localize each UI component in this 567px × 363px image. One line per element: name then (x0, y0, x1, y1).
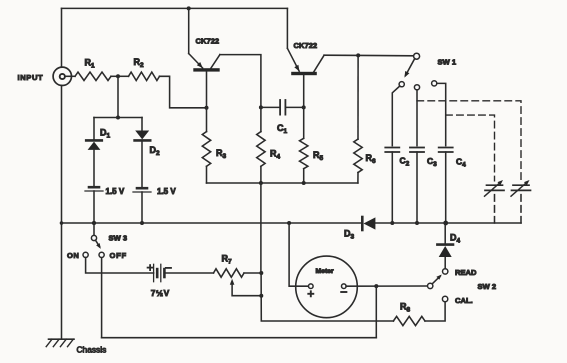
svg-text:READ: READ (455, 268, 477, 277)
battery B1 long plate (85, 190, 103, 192)
transistor Q1 base bar (193, 68, 219, 71)
wire dashed link C3 to outer trimmer (417, 101, 521, 181)
label R8 (400, 302, 411, 314)
node C3 bus junction (415, 221, 419, 225)
wire R4 node to C1 (261, 106, 280, 108)
switch SW3 pole contact (91, 235, 96, 240)
svg-text:Meter: Meter (316, 268, 334, 275)
wire OFF contact drop (101, 258, 103, 338)
label C2 (400, 156, 410, 168)
wire tee to D2 (141, 118, 143, 131)
wire R7 to vertical (244, 272, 261, 274)
battery B3 minus sign (166, 267, 171, 269)
wire meter minus to SW2 pole (346, 285, 427, 287)
wire node A to R2 (118, 75, 129, 77)
transistor Q2 base lead (303, 75, 305, 107)
label R1 (85, 58, 96, 70)
wire R3 bottom (206, 166, 208, 183)
label INPUT (18, 73, 44, 82)
switch SW3 ON contact (83, 252, 88, 257)
wire throw A elbow to C2 (392, 86, 400, 146)
label READ (455, 268, 477, 277)
transistor Q1 base lead (206, 72, 208, 108)
node Q1 base junction (205, 106, 209, 110)
wire dashed inner trimmer to bus (494, 195, 496, 223)
wire R7 net down elbow (261, 273, 393, 321)
label Q1 CK722 (196, 36, 220, 45)
wire R5 bottom (303, 169, 305, 183)
transistor Q2 emitter diagonal (287, 48, 299, 71)
ground chassis symbol (46, 339, 74, 346)
svg-text:1.5 V: 1.5 V (157, 187, 176, 196)
wire tee to D1 (93, 118, 95, 140)
node R5 bottom rail junction (302, 181, 306, 185)
wire R8 elbow to CAL (425, 302, 445, 321)
diode D3 cathode bar (361, 217, 364, 230)
label SW3 (109, 233, 128, 242)
switch SW3 OFF contact (99, 252, 104, 257)
potentiometer R7 wiper arrow (230, 279, 235, 285)
wire battery B1 to bus (93, 191, 95, 223)
wire C1 to R5 node (285, 106, 303, 108)
label ON (67, 251, 79, 260)
node SW3 pole bus junction (92, 221, 96, 225)
switch SW2 lever arrow (436, 275, 441, 280)
label R5 (313, 150, 324, 162)
transistor Q1 emitter arrow (197, 62, 203, 68)
trimmer capacitor CV2 arrow (511, 180, 530, 196)
capacitor C1 right plate (284, 100, 286, 115)
diode D3 triangle (364, 217, 376, 229)
wire R1 to node A (111, 75, 118, 77)
input jack J1 center pin (60, 74, 65, 79)
svg-text:R5: R5 (313, 150, 324, 162)
battery B3 plate long 2 (160, 264, 162, 281)
label 1.5V right (157, 187, 176, 196)
svg-text:D4: D4 (450, 233, 461, 245)
switch SW2 pole contact (428, 283, 433, 288)
wire R6 bottom elbow (357, 173, 359, 184)
node R7 right junction (259, 271, 263, 275)
wire R2 right elbow down (160, 76, 207, 108)
capacitor C3 bottom plate (410, 151, 424, 153)
trimmer capacitor CV1 top plate (487, 184, 503, 186)
label D3 (344, 229, 355, 241)
svg-text:C3: C3 (427, 156, 437, 168)
switch SW1 lever arrow (404, 71, 409, 78)
wire C3 to bus (416, 152, 418, 223)
meter plus sign (308, 291, 313, 296)
label D1 (100, 128, 111, 140)
resistor R8 (393, 316, 425, 325)
resistor R3 (202, 132, 210, 167)
wire battery B2 to bus (141, 192, 143, 223)
label CAL. (455, 296, 473, 305)
wire R3 top (206, 108, 208, 132)
switch SW1 lever (406, 59, 415, 76)
svg-text:R1: R1 (85, 58, 96, 70)
svg-text:CK722: CK722 (294, 41, 318, 50)
label SW1 (438, 57, 457, 66)
wire D1 to battery B1 (93, 150, 95, 186)
svg-text:R8: R8 (400, 302, 411, 314)
capacitor C4 top plate (439, 147, 453, 149)
svg-text:D3: D3 (344, 229, 355, 241)
svg-text:R4: R4 (270, 149, 281, 161)
label R7 (222, 253, 233, 265)
wire dashed outer trimmer to bus (520, 195, 522, 223)
wire dashed link C4 to inner trimmer (446, 115, 495, 181)
battery B2 short plate (137, 187, 147, 190)
svg-text:CAL.: CAL. (455, 296, 473, 305)
wire Q1 emitter drop (188, 8, 190, 53)
resistor R7 (214, 269, 245, 277)
wire R5 top (303, 107, 305, 138)
svg-text:7½V: 7½V (151, 288, 170, 298)
node R6 top junction (356, 53, 360, 57)
wire bus left of D3 (62, 222, 363, 224)
wire bus to SW3 pole (93, 223, 95, 235)
label 1.5 V left (106, 187, 125, 196)
svg-text:R3: R3 (216, 148, 227, 160)
switch SW2 READ contact (443, 269, 448, 274)
wire R4 top (260, 107, 262, 131)
node meter feed bus junction (287, 221, 291, 225)
node bus left-rail junction (60, 221, 64, 225)
wire left rail upper segment (61, 8, 63, 67)
switch SW2 CAL contact (442, 296, 447, 301)
svg-text:R2: R2 (134, 57, 145, 69)
node Q1 emitter top-rail junction (187, 6, 191, 10)
wire battery B3 to R7 (164, 272, 213, 274)
meter M1 body (296, 256, 358, 318)
wire bottom long run (102, 337, 377, 339)
label R3 (216, 148, 227, 160)
wire resistor bottom rail (207, 182, 358, 184)
svg-text:SW 1: SW 1 (438, 57, 457, 66)
wire diode tee crossbar (94, 117, 142, 119)
node battery B2 bus junction (140, 221, 144, 225)
diode D1 triangle (88, 142, 101, 150)
diode D4 triangle (439, 246, 452, 257)
trimmer capacitor CV2 top plate (513, 184, 529, 186)
potentiometer R7 wiper lead (232, 285, 261, 296)
wire top supply rail (62, 7, 288, 9)
meter plus terminal (309, 284, 314, 289)
resistor R6 (354, 139, 362, 172)
label D2 (150, 145, 161, 157)
label Chassis (77, 345, 107, 355)
label 7.5V (151, 288, 170, 298)
label Meter (316, 268, 334, 275)
node C2 bus junction (390, 221, 394, 225)
wire bus down to meter plus (289, 223, 308, 286)
node R5 top junction (302, 105, 306, 109)
svg-text:CK722: CK722 (196, 36, 220, 45)
svg-text:SW 2: SW 2 (478, 282, 497, 291)
label C4 (456, 157, 466, 169)
switch SW1 pole contact (414, 53, 420, 59)
input jack J1 outer ring (53, 67, 71, 85)
wire tap down to bottom run (375, 286, 377, 338)
switch SW1 throw C contact (432, 81, 437, 86)
transistor Q2 base bar (291, 72, 317, 75)
switch SW3 lever arrow (96, 243, 101, 249)
trimmer capacitor CV1 bottom plate (485, 189, 504, 191)
capacitor C3 top plate (410, 147, 424, 149)
node battery B1 bus junction (92, 221, 96, 225)
switch SW1 throw A contact (399, 82, 404, 87)
wire rail down through bus to R7 net (260, 183, 262, 273)
label R6 (366, 153, 377, 165)
battery B1 short plate (89, 186, 99, 189)
svg-text:OFF: OFF (110, 251, 127, 260)
battery B3 plate long 1 (153, 264, 155, 281)
svg-text:SW 3: SW 3 (109, 233, 128, 242)
node R7 wiper junction (259, 294, 263, 298)
meter minus sign (341, 291, 346, 293)
node R4 top junction (259, 105, 263, 109)
wire C4 to bus (445, 152, 447, 223)
switch SW2 lever (432, 276, 440, 284)
meter minus terminal (342, 284, 347, 289)
label D4 (450, 233, 461, 245)
battery B3 plus sign (148, 265, 153, 270)
capacitor C4 bottom plate (439, 151, 453, 153)
wire D4 to bus (444, 223, 446, 245)
wire node A down to diode tee (117, 76, 119, 117)
transistor Q1 collector diagonal (211, 55, 220, 69)
transistor Q1 emitter diagonal (189, 54, 203, 69)
capacitor C1 left plate (279, 100, 281, 115)
svg-text:R6: R6 (366, 153, 377, 165)
wire Q2 emitter drop from rail end (286, 8, 288, 48)
svg-text:Chassis: Chassis (77, 345, 107, 355)
wire R4 bottom (260, 166, 262, 183)
wire throw C elbow to C4 (437, 83, 446, 145)
wire READ contact to D4 (444, 257, 446, 269)
label R2 (134, 57, 145, 69)
svg-text:C2: C2 (400, 156, 410, 168)
diode D4 cathode bar (437, 243, 453, 246)
svg-text:R7: R7 (222, 253, 233, 265)
label SW2 (478, 282, 497, 291)
svg-text:INPUT: INPUT (18, 73, 44, 82)
battery B3 plate short 1 (156, 269, 159, 277)
label C1 (277, 123, 288, 135)
diode D2 triangle (135, 131, 149, 140)
wire Q1 collector to R4 node (220, 55, 261, 108)
label Q2 CK722 (294, 41, 318, 50)
wire ON contact elbow to battery (86, 258, 154, 274)
resistor R2 (129, 72, 160, 80)
resistor R4 (257, 132, 265, 167)
label R4 (270, 149, 281, 161)
wire left rail lower segment (61, 86, 63, 340)
node R4 bottom rail junction (259, 181, 263, 185)
svg-text:D1: D1 (100, 128, 111, 140)
svg-text:1.5 V: 1.5 V (106, 187, 125, 196)
capacitor C2 bottom plate (385, 151, 399, 153)
wire throw B to C3 (416, 90, 418, 146)
label C3 (427, 156, 437, 168)
transistor Q2 emitter arrow (294, 65, 299, 72)
resistor R1 (75, 72, 111, 80)
node diode tee junction (116, 116, 120, 120)
node A junction R1/R2/diodes (116, 74, 120, 78)
switch SW3 lever (96, 240, 100, 247)
node meter minus tap junction (374, 284, 378, 288)
diode D1 cathode bar (86, 139, 102, 142)
wire R6 top (357, 55, 359, 139)
wire C2 to bus (391, 152, 393, 223)
svg-text:ON: ON (67, 251, 79, 260)
diode D2 cathode bar (135, 139, 151, 142)
trimmer capacitor CV2 bottom plate (512, 189, 531, 191)
svg-text:C4: C4 (456, 157, 466, 169)
wire Q2 collector to SW1 (324, 54, 414, 57)
wire bus right of D3 (375, 222, 521, 224)
wire jack pin to R1 (66, 75, 76, 77)
wire D2 to battery B2 (141, 140, 143, 187)
resistor R5 (300, 138, 308, 168)
battery B3 plate short 2 (163, 269, 166, 277)
battery B2 long plate (133, 191, 151, 193)
node C4 bus junction (443, 221, 448, 226)
transistor Q2 collector diagonal (314, 55, 324, 72)
trimmer capacitor CV1 arrow (485, 180, 504, 196)
svg-text:D2: D2 (150, 145, 161, 157)
label OFF (110, 251, 127, 260)
svg-text:C1: C1 (277, 123, 288, 135)
capacitor C2 top plate (385, 147, 399, 149)
switch SW1 throw B contact (414, 85, 419, 90)
